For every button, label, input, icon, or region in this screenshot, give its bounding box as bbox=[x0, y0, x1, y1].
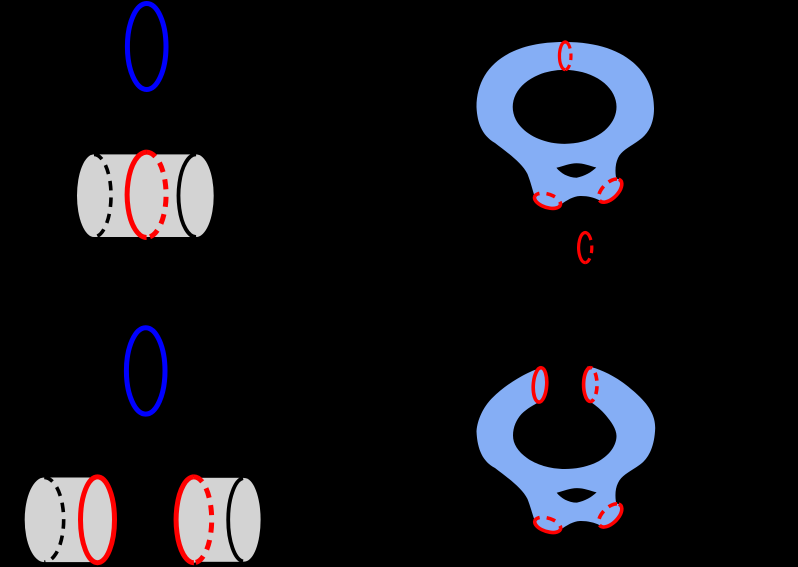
node boundary-right-leg top bbox=[595, 175, 626, 206]
node boundary-right-leg bottom bbox=[595, 500, 626, 531]
node half-cylinder left bbox=[25, 477, 115, 563]
node half-cylinder right bbox=[176, 477, 261, 563]
node red-curve middle-right bbox=[579, 233, 588, 263]
node genus-lips bottom bbox=[557, 488, 597, 503]
node curve-c bottom bbox=[126, 328, 165, 414]
node boundary-cut-right bbox=[584, 368, 597, 402]
node boundary-left-leg top bbox=[533, 190, 563, 211]
node cylinder-top body bbox=[77, 152, 214, 237]
node surface-bottom-right bbox=[477, 366, 656, 532]
node boundary-cut-left bbox=[532, 367, 548, 402]
node boundary-left-leg bottom bbox=[533, 514, 563, 535]
node surface-top-right bbox=[477, 42, 655, 208]
node genus-lips top bbox=[556, 163, 596, 178]
node curve-c top bbox=[127, 4, 166, 90]
node red-circle ring-top bbox=[559, 42, 567, 70]
